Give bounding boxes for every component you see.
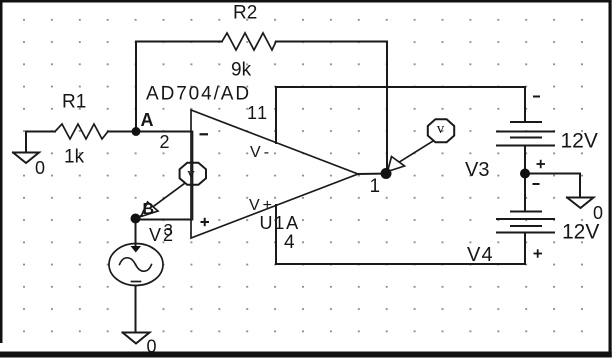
wire: ground stub left — [25, 132, 27, 153]
voltmeter XMM2 octagon — [428, 119, 454, 142]
svg-text:R2: R2 — [233, 3, 257, 24]
svg-text:1: 1 — [370, 176, 381, 197]
svg-text:3: 3 — [164, 221, 173, 240]
frame bottom border — [0, 352, 612, 358]
junction dot node A — [132, 127, 141, 136]
svg-text:V: V — [149, 225, 161, 245]
svg-text:V4: V4 — [467, 244, 494, 266]
ground (left, 0) — [13, 153, 39, 164]
junction dot output node 1 — [381, 168, 392, 179]
svg-text:V+: V+ — [249, 197, 275, 214]
frame top border — [0, 0, 612, 3]
V2 polarity arrow — [131, 246, 142, 253]
svg-text:V-: V- — [250, 144, 273, 161]
wire: V3 bottom to V4 top through junction — [524, 146, 526, 212]
non-inverting input plus mark — [201, 218, 210, 226]
V2 negative mark — [132, 281, 141, 283]
junction dot node B — [131, 214, 141, 224]
svg-text:AD704/AD: AD704/AD — [146, 84, 251, 105]
wire: node B down to source V2 — [135, 219, 137, 248]
wire: battery V3 top lead — [524, 87, 526, 122]
junction dot battery midpoint — [520, 169, 530, 179]
wire: junction to right ground — [525, 174, 580, 198]
battery V4 plates — [497, 212, 554, 233]
svg-text:11: 11 — [247, 103, 269, 123]
op-amp U1 triangle — [191, 110, 358, 238]
svg-text:v: v — [437, 121, 445, 137]
wire: node B to op-amp pin 3 — [136, 219, 192, 221]
svg-text:U1A: U1A — [260, 213, 300, 233]
inverting input minus mark — [200, 133, 209, 135]
wire: voltmeter U2 probe lead — [397, 141, 433, 164]
wire: R1 to op-amp pin 2 through node A — [108, 131, 191, 133]
svg-text:2: 2 — [160, 132, 170, 152]
battery V3 minus mark — [533, 96, 540, 98]
sine wave inside V2 — [120, 258, 152, 272]
voltmeter XMM1 octagon — [180, 163, 206, 185]
wire: bottom supply horizontal to pin 4 — [276, 263, 525, 265]
svg-text:R1: R1 — [62, 92, 86, 113]
frame left border — [0, 0, 3, 343]
wire: pin 4 vertical — [275, 205, 277, 264]
svg-text:A: A — [141, 110, 154, 130]
wire: R2 left horizontal — [136, 41, 222, 43]
battery V3 plates — [497, 122, 554, 146]
voltmeter lead vertical at pin 2 — [192, 132, 194, 220]
battery V3 plus mark — [537, 160, 546, 168]
wire: R2 right horizontal — [276, 41, 387, 43]
svg-text:9k: 9k — [231, 60, 252, 81]
svg-text:V3: V3 — [465, 159, 489, 181]
wire: feedback vertical down to output node — [386, 42, 388, 174]
probe arrowhead at node B — [141, 202, 158, 217]
ground (right, 0) — [567, 198, 594, 209]
wire: V- supply horizontal to battery V3 — [276, 86, 525, 88]
svg-text:0: 0 — [35, 158, 45, 178]
battery V4 minus mark — [533, 183, 540, 185]
wire: V2 bottom to ground — [135, 286, 137, 333]
wire: op-amp output lead to node 1 — [358, 173, 386, 176]
svg-text:4: 4 — [284, 232, 295, 253]
resistor R1 — [55, 124, 108, 139]
frame right border — [609, 0, 612, 358]
battery V4 plus mark — [534, 249, 543, 257]
svg-text:1k: 1k — [64, 147, 85, 168]
svg-text:12V: 12V — [561, 130, 598, 153]
resistor R2 — [222, 33, 276, 50]
ground (bottom, 0) — [123, 333, 150, 344]
wire: R2 left vertical from feedback corner down to node A — [135, 42, 137, 132]
svg-text:v: v — [187, 166, 195, 182]
svg-text:12V: 12V — [562, 221, 599, 244]
wire: left input from ground to R1 — [26, 131, 55, 133]
probe arrowhead at output node — [388, 157, 405, 172]
AC source V2 circle — [109, 244, 163, 286]
wire: voltmeter XMM1 probe lead to node B — [139, 184, 185, 218]
wire: pin 11 vertical — [275, 87, 277, 143]
wire: V4 bottom lead — [524, 233, 526, 265]
svg-text:B: B — [143, 201, 155, 218]
